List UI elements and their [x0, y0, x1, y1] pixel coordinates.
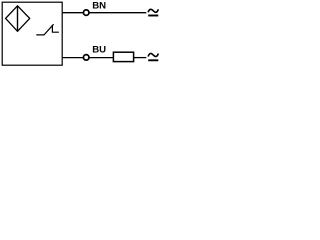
wire load to supply — [134, 57, 147, 59]
svg-text:BN: BN — [92, 1, 106, 12]
AC/DC supply symbol top: tilde — [148, 9, 158, 12]
AC/DC supply symbol bottom: tilde — [148, 53, 158, 56]
load resistor — [113, 52, 133, 61]
wire BU to load — [89, 57, 113, 59]
wire BN from body to terminal — [62, 12, 83, 14]
AC/DC supply symbol bottom: bar — [148, 59, 158, 61]
switch contact fixed terminal — [52, 25, 59, 32]
terminal circle BU — [83, 55, 89, 61]
proximity sensor diamond — [6, 6, 30, 32]
wire BU from body to terminal — [62, 57, 83, 59]
terminal circle BN — [83, 10, 89, 16]
switch contact left lead — [36, 24, 53, 35]
svg-text:BU: BU — [92, 44, 106, 55]
AC/DC supply symbol top: bar — [148, 15, 158, 17]
wire BN to supply — [89, 12, 146, 14]
diamond center line — [17, 6, 19, 32]
sensor body outline — [2, 2, 62, 65]
